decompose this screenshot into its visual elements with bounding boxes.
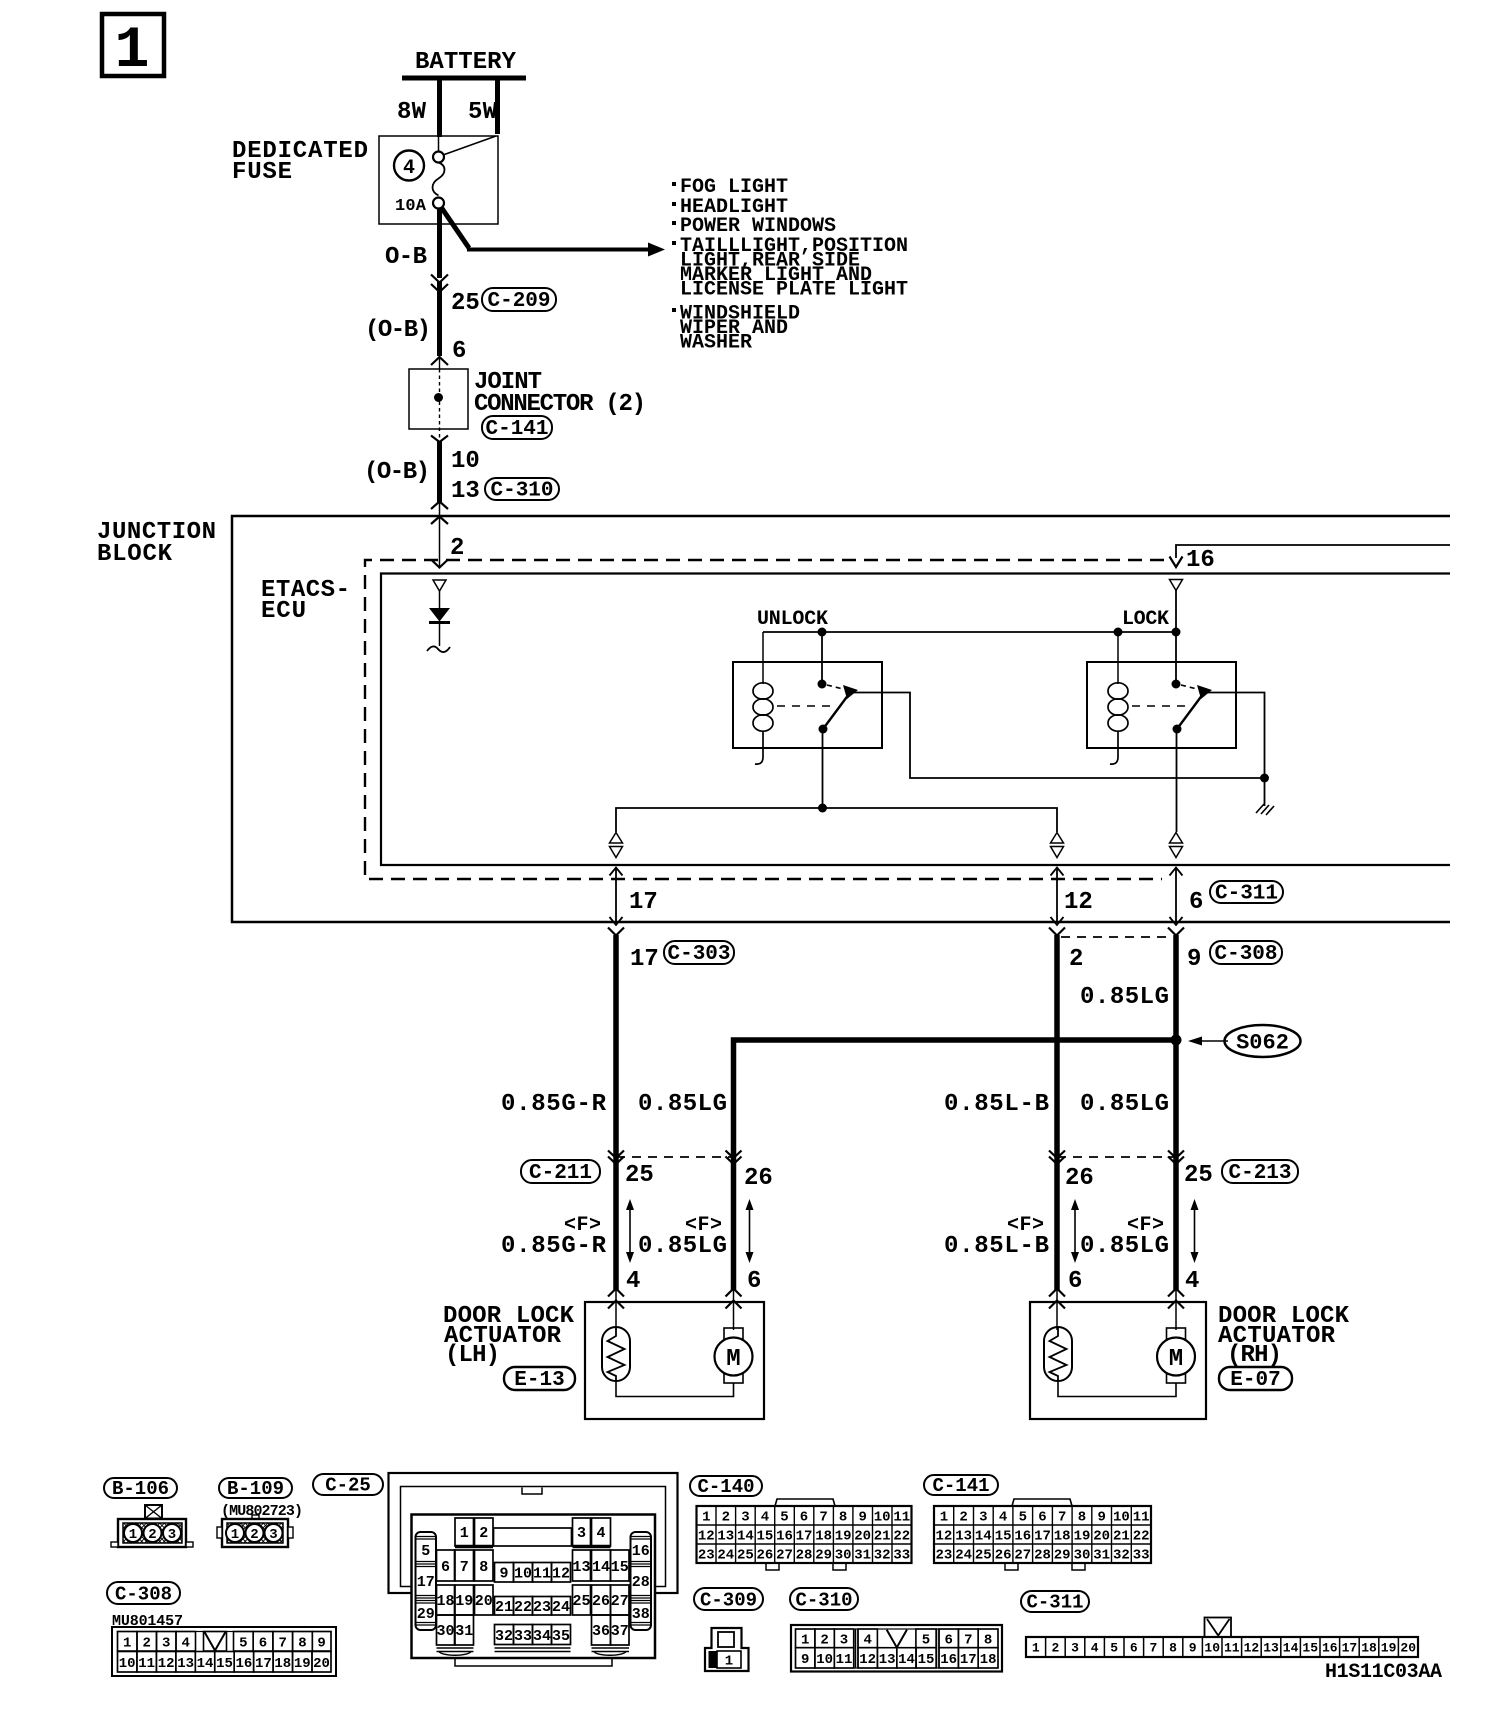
svg-text:22: 22 (893, 1529, 910, 1545)
connector bubble C-140 (690, 1476, 762, 1498)
svg-text:10: 10 (451, 448, 480, 475)
LH actuator internal wire (616, 1381, 734, 1397)
svg-text:18: 18 (436, 1593, 454, 1610)
svg-text:1: 1 (1032, 1641, 1040, 1656)
svg-text:3: 3 (577, 1525, 586, 1542)
svg-text:C-141: C-141 (485, 418, 548, 441)
load list text (672, 176, 908, 355)
C-308 row2 pins 10-20 (118, 1652, 332, 1673)
ECU inner box (381, 574, 1450, 866)
svg-text:30: 30 (1074, 1548, 1091, 1564)
svg-text:14: 14 (592, 1559, 610, 1576)
svg-text:11: 11 (893, 1510, 910, 1526)
svg-text:14: 14 (197, 1656, 214, 1672)
wire 0.85LG pin9 to RH actuator (1173, 935, 1179, 1290)
connector C-211 crossing chevrons (608, 1151, 742, 1165)
svg-text:10: 10 (119, 1656, 136, 1672)
svg-text:19: 19 (1074, 1529, 1091, 1545)
svg-text:4: 4 (999, 1510, 1007, 1526)
svg-text:20: 20 (475, 1593, 493, 1610)
svg-text:38: 38 (632, 1606, 650, 1623)
svg-text:6: 6 (259, 1636, 267, 1652)
C-25 left side column pins 5 17 29 (416, 1532, 437, 1630)
svg-text:9: 9 (858, 1510, 866, 1526)
svg-text:9: 9 (1097, 1510, 1105, 1526)
svg-text:22: 22 (1133, 1529, 1150, 1545)
svg-text:0.85LG: 0.85LG (1080, 984, 1169, 1011)
chevron wire6 exits junction block (1168, 928, 1184, 936)
C-310 key notch (887, 1630, 907, 1648)
svg-text:17: 17 (629, 889, 658, 916)
svg-text:13: 13 (1263, 1641, 1279, 1656)
svg-text:9: 9 (801, 1652, 809, 1668)
svg-text:8: 8 (1078, 1510, 1086, 1526)
LH actuator coil (602, 1327, 630, 1381)
connector bubble C-308 (1210, 941, 1282, 966)
svg-text:(O-B): (O-B) (365, 317, 431, 344)
connector B-109 body (217, 1515, 293, 1547)
svg-text:24: 24 (955, 1548, 972, 1564)
connector C-141 body (934, 1499, 1151, 1570)
svg-text:4: 4 (596, 1525, 605, 1542)
chevrons into RH actuator pin6 (1049, 1289, 1065, 1309)
svg-text:1: 1 (123, 1636, 131, 1652)
updown arrow wire2rh (1071, 1199, 1079, 1263)
svg-text:6: 6 (1068, 1268, 1082, 1295)
RH actuator motor M (1157, 1328, 1195, 1383)
svg-text:15: 15 (918, 1652, 935, 1668)
svg-text:17: 17 (796, 1529, 813, 1545)
svg-text:16: 16 (632, 1543, 650, 1560)
svg-text:0.85LG: 0.85LG (1080, 1233, 1169, 1260)
connector bubble C-309 (694, 1588, 763, 1612)
svg-text:26: 26 (744, 1165, 773, 1192)
svg-text:8: 8 (479, 1559, 488, 1576)
svg-text:12: 12 (859, 1652, 876, 1668)
relay output bus wire (616, 808, 1057, 832)
wire 0.85L-B pin2 to RH actuator (1054, 935, 1060, 1290)
svg-text:28: 28 (1034, 1548, 1051, 1564)
svg-text:26: 26 (1065, 1165, 1094, 1192)
chevron out of joint connector (431, 436, 448, 443)
svg-text:36: 36 (592, 1623, 610, 1640)
svg-text:3: 3 (741, 1510, 749, 1526)
connector C-25 housing (389, 1473, 678, 1593)
svg-text:2: 2 (479, 1525, 488, 1542)
svg-text:13: 13 (879, 1652, 896, 1668)
svg-text:16: 16 (940, 1652, 957, 1668)
svg-text:10: 10 (1204, 1641, 1220, 1656)
svg-text:13: 13 (717, 1529, 734, 1545)
svg-text:4: 4 (1091, 1641, 1099, 1656)
connector C-213 crossing chevrons (1049, 1151, 1184, 1165)
wire lock switch output down (1176, 729, 1178, 832)
svg-text:S062: S062 (1236, 1031, 1289, 1056)
chevron into joint connector (431, 357, 448, 365)
svg-text:25: 25 (975, 1548, 992, 1564)
connector bubble C-311 (1210, 881, 1283, 906)
svg-text:12: 12 (158, 1656, 175, 1672)
wire 16 from right side (1176, 545, 1450, 558)
svg-text:25: 25 (625, 1162, 654, 1189)
chevrons into RH actuator pin4 (1168, 1289, 1184, 1309)
svg-text:2: 2 (250, 1527, 258, 1543)
svg-text:30: 30 (835, 1548, 852, 1564)
connector bubble B-109 (219, 1478, 292, 1500)
svg-text:33: 33 (1133, 1548, 1150, 1564)
svg-text:1: 1 (115, 19, 150, 84)
svg-text:CONNECTOR (2): CONNECTOR (2) (474, 391, 646, 418)
arrow into ETACS on wire 16 (1170, 557, 1183, 568)
svg-text:32: 32 (495, 1628, 513, 1645)
C-25 row D pins 32-35 (495, 1625, 571, 1645)
svg-text:C-310: C-310 (490, 480, 553, 503)
pin 2 input triangle (433, 580, 446, 591)
svg-text:20: 20 (854, 1529, 871, 1545)
svg-text:19: 19 (1381, 1641, 1397, 1656)
svg-text:18: 18 (815, 1529, 832, 1545)
wire unlock NC contact right (853, 693, 1265, 779)
svg-text:7: 7 (460, 1559, 469, 1576)
svg-text:8: 8 (298, 1636, 306, 1652)
svg-text:4: 4 (761, 1510, 769, 1526)
svg-text:E-07: E-07 (1230, 1369, 1280, 1392)
svg-text:33: 33 (893, 1548, 910, 1564)
svg-text:19: 19 (835, 1529, 852, 1545)
connector bubble E-13 (504, 1367, 575, 1392)
svg-text:6: 6 (800, 1510, 808, 1526)
wire unlock switch output down (822, 729, 824, 808)
wire (O-B) C-209 to joint connector (437, 281, 442, 356)
svg-text:5W: 5W (468, 99, 498, 126)
svg-text:7: 7 (278, 1636, 286, 1652)
svg-text:6: 6 (1038, 1510, 1046, 1526)
unlock switch (818, 680, 859, 734)
svg-text:18: 18 (274, 1656, 291, 1672)
svg-text:11: 11 (836, 1652, 853, 1668)
svg-text:1: 1 (725, 1654, 733, 1670)
svg-text:6: 6 (1189, 889, 1203, 916)
svg-text:7: 7 (819, 1510, 827, 1526)
C-310 row2 cells (796, 1648, 999, 1668)
connector bubble C-209 (482, 288, 556, 313)
wire into LH motor (733, 1290, 735, 1330)
svg-text:23: 23 (935, 1548, 952, 1564)
svg-text:20: 20 (313, 1656, 330, 1672)
LH actuator box (585, 1302, 764, 1419)
svg-text:C-308: C-308 (1214, 943, 1277, 966)
wire unlock switch feed (821, 632, 823, 682)
svg-text:24: 24 (552, 1599, 570, 1616)
svg-text:6: 6 (441, 1559, 450, 1576)
svg-text:12: 12 (935, 1529, 952, 1545)
svg-text:0.85L-B: 0.85L-B (944, 1233, 1049, 1260)
svg-text:31: 31 (1093, 1548, 1110, 1564)
svg-text:B-106: B-106 (112, 1478, 169, 1500)
svg-text:C-303: C-303 (667, 943, 730, 966)
svg-text:9: 9 (317, 1636, 325, 1652)
svg-text:C-25: C-25 (325, 1475, 371, 1497)
chevron wire17 exits junction block (608, 928, 624, 936)
RH actuator box (1030, 1302, 1206, 1419)
C-25 row B pins 9-12 (495, 1563, 571, 1583)
wire 0.85G-R pin17 to LH actuator (613, 935, 619, 1290)
svg-text:C-309: C-309 (700, 1590, 757, 1612)
C-25 middle blank slot (494, 1528, 572, 1546)
svg-text:11: 11 (1224, 1641, 1240, 1656)
svg-text:25: 25 (572, 1593, 590, 1610)
svg-text:13: 13 (451, 478, 480, 505)
svg-text:(MU802723): (MU802723) (221, 1503, 303, 1520)
dashed connector C-213 link (1057, 1156, 1176, 1158)
svg-text:2: 2 (450, 535, 464, 562)
svg-text:5: 5 (780, 1510, 788, 1526)
svg-text:19: 19 (294, 1656, 311, 1672)
svg-text:10A: 10A (395, 197, 427, 216)
C-308 key notch (204, 1632, 227, 1652)
B-109 pin 3 (265, 1524, 283, 1542)
svg-text:3: 3 (168, 1527, 176, 1543)
svg-text:(O-B): (O-B) (364, 459, 430, 486)
svg-text:13: 13 (177, 1656, 194, 1672)
svg-text:20: 20 (1400, 1641, 1416, 1656)
svg-text:8: 8 (839, 1510, 847, 1526)
svg-text:C-310: C-310 (795, 1590, 852, 1612)
svg-text:ECU: ECU (261, 598, 306, 625)
svg-text:2: 2 (820, 1633, 828, 1649)
svg-text:H1S11C03AA: H1S11C03AA (1325, 1661, 1442, 1684)
C-311 key notch (1205, 1618, 1232, 1638)
svg-text:15: 15 (611, 1559, 629, 1576)
svg-text:C-213: C-213 (1228, 1162, 1291, 1185)
svg-text:13: 13 (572, 1559, 590, 1576)
svg-text:17: 17 (255, 1656, 272, 1672)
unlock relay coil (753, 683, 773, 764)
pin 17 output triangles (610, 833, 623, 858)
svg-text:12: 12 (1064, 889, 1093, 916)
svg-text:M: M (1169, 1346, 1183, 1373)
svg-text:23: 23 (533, 1599, 551, 1616)
node wire16 junction (1172, 628, 1181, 637)
svg-text:34: 34 (533, 1628, 551, 1645)
svg-text:4: 4 (626, 1268, 640, 1295)
svg-text:25: 25 (737, 1548, 754, 1564)
C-308 row1 pins 1-4 (118, 1632, 196, 1652)
junction block outline (232, 516, 1450, 922)
svg-text:31: 31 (854, 1548, 871, 1564)
splice S062 wire (734, 1040, 1177, 1290)
svg-text:0.85L-B: 0.85L-B (944, 1091, 1049, 1118)
connector pass chevrons C-209 (431, 275, 448, 293)
svg-text:15: 15 (995, 1529, 1012, 1545)
node unlock switch tap (818, 628, 827, 637)
svg-text:12: 12 (552, 1566, 570, 1583)
svg-text:10: 10 (514, 1566, 532, 1583)
svg-text:UNLOCK: UNLOCK (757, 608, 828, 631)
lock relay box (1087, 662, 1236, 748)
chevron below junction block edge (431, 517, 448, 525)
svg-text:27: 27 (1014, 1548, 1031, 1564)
ground (1256, 804, 1274, 815)
svg-text:C-211: C-211 (529, 1162, 592, 1185)
connector bubble C-141 (482, 416, 552, 441)
updown arrow wire9rh (1191, 1199, 1199, 1263)
wire diode to continuation (439, 623, 441, 646)
connector bubble C-213 (1222, 1160, 1298, 1185)
svg-text:5: 5 (922, 1633, 930, 1649)
B-106 pin 1 (124, 1524, 142, 1542)
svg-text:18: 18 (1054, 1529, 1071, 1545)
svg-text:BATTERY: BATTERY (415, 49, 517, 76)
svg-text:14: 14 (975, 1529, 992, 1545)
svg-text:2: 2 (142, 1636, 150, 1652)
svg-text:(LH): (LH) (445, 1342, 500, 1369)
connector B-106 body (111, 1505, 193, 1547)
svg-text:3: 3 (1071, 1641, 1079, 1656)
svg-text:5: 5 (421, 1543, 430, 1560)
svg-text:C-209: C-209 (487, 290, 550, 313)
pin 16 input triangle (1170, 580, 1183, 591)
svg-text:10: 10 (874, 1510, 891, 1526)
svg-text:8: 8 (984, 1633, 992, 1649)
svg-text:1: 1 (460, 1525, 469, 1542)
connector bubble C-141 bottom (924, 1475, 998, 1497)
svg-text:E-13: E-13 (514, 1369, 564, 1392)
svg-text:20: 20 (1093, 1529, 1110, 1545)
svg-text:1: 1 (940, 1510, 948, 1526)
C-25 row D pins 30 31 36 37 (437, 1615, 630, 1645)
svg-text:3: 3 (162, 1636, 170, 1652)
connector C-140 body (697, 1499, 912, 1570)
svg-text:(RH): (RH) (1227, 1342, 1282, 1369)
svg-text:29: 29 (1054, 1548, 1071, 1564)
svg-text:17: 17 (1034, 1529, 1051, 1545)
wire lock NC contact to ground (1207, 693, 1265, 807)
C-310 row1 cells (796, 1629, 999, 1648)
relay supply wire unlock-lock (763, 631, 1176, 633)
svg-text:3: 3 (269, 1527, 277, 1543)
svg-text:17: 17 (960, 1652, 977, 1668)
C-308 row1 pins 5-9 (234, 1632, 332, 1652)
svg-text:7: 7 (1149, 1641, 1157, 1656)
pin 17 C-311 arrow (610, 868, 623, 926)
svg-text:15: 15 (216, 1656, 233, 1672)
svg-text:9: 9 (1189, 1641, 1197, 1656)
wire lock coil feed (1117, 632, 1119, 684)
lock coil-switch dashed link (1132, 705, 1188, 707)
svg-text:18: 18 (980, 1652, 997, 1668)
svg-text:8: 8 (1169, 1641, 1177, 1656)
svg-text:30: 30 (436, 1623, 454, 1640)
svg-text:6: 6 (1130, 1641, 1138, 1656)
continuation squiggle (427, 646, 450, 652)
svg-text:14: 14 (1283, 1641, 1299, 1656)
svg-text:LICENSE PLATE LIGHT: LICENSE PLATE LIGHT (680, 279, 908, 302)
wire into LH coil (615, 1290, 617, 1330)
svg-text:33: 33 (514, 1628, 532, 1645)
B-106 pin 2 (144, 1524, 162, 1542)
svg-text:WASHER: WASHER (680, 332, 752, 355)
svg-text:29: 29 (417, 1606, 435, 1623)
node lock coil tap (1114, 628, 1123, 637)
lock switch (1172, 680, 1213, 734)
C-25 row B pins 6-8 13-15 (437, 1550, 630, 1581)
svg-text:26: 26 (756, 1548, 773, 1564)
svg-text:9: 9 (1187, 946, 1201, 973)
svg-text:27: 27 (611, 1593, 629, 1610)
C-25 right side column pins 16 28 38 (631, 1532, 652, 1630)
svg-text:5: 5 (1110, 1641, 1118, 1656)
svg-text:C-311: C-311 (1026, 1592, 1083, 1614)
svg-text:13: 13 (955, 1529, 972, 1545)
joint connector (2) C-141 (409, 357, 468, 441)
svg-text:17: 17 (630, 946, 659, 973)
svg-text:14: 14 (898, 1652, 915, 1668)
chevrons into LH actuator pin6 (726, 1289, 742, 1309)
svg-text:9: 9 (499, 1566, 508, 1583)
svg-text:C-140: C-140 (697, 1476, 754, 1498)
svg-text:1: 1 (129, 1527, 137, 1543)
svg-text:0.85G-R: 0.85G-R (501, 1091, 607, 1118)
svg-text:19: 19 (455, 1593, 473, 1610)
pin 6 C-311 arrow (1170, 868, 1183, 926)
C-25 row A pins 1-4 (455, 1518, 611, 1547)
dedicated fuse no.4 10A (379, 136, 498, 224)
svg-text:17: 17 (417, 1574, 435, 1591)
wire feed into junction block (439, 501, 441, 568)
svg-text:25: 25 (1184, 1162, 1213, 1189)
svg-text:16: 16 (1322, 1641, 1338, 1656)
svg-text:21: 21 (495, 1599, 513, 1616)
svg-text:4: 4 (403, 157, 415, 180)
svg-text:37: 37 (611, 1623, 629, 1640)
svg-text:BLOCK: BLOCK (97, 541, 173, 568)
svg-text:LOCK: LOCK (1122, 608, 1169, 631)
dashed connector C-308 link (1061, 936, 1170, 938)
connector bubble C-303 (664, 941, 734, 966)
svg-text:7: 7 (964, 1633, 972, 1649)
node splice S062 (1171, 1035, 1182, 1046)
ETACS-ECU dashed outline (365, 560, 1164, 879)
pin 12 output triangles (1051, 833, 1064, 858)
unlock coil-switch dashed link (777, 705, 833, 707)
C-25 row C pins 18-20 25-27 (437, 1585, 630, 1615)
splice S062 callout (1188, 1025, 1301, 1057)
pin 6 output triangles (1170, 833, 1183, 858)
svg-text:O-B: O-B (385, 244, 427, 271)
C-25 bottom skirts (437, 1648, 630, 1655)
chevron into ETACS dashed box (431, 560, 448, 568)
connector bubble C-25 (313, 1474, 383, 1497)
node ground junction (1260, 774, 1269, 783)
svg-text:5: 5 (1019, 1510, 1027, 1526)
connector C-309 body (705, 1628, 749, 1671)
connector bubble C-211 (521, 1160, 600, 1185)
svg-text:28: 28 (796, 1548, 813, 1564)
connector C-308 pinout body (112, 1627, 336, 1676)
wire 5W diagonal to fuse terminal (443, 136, 496, 155)
svg-text:28: 28 (632, 1574, 650, 1591)
svg-text:1: 1 (231, 1527, 239, 1543)
C-141 pin numbers (935, 1510, 1149, 1564)
svg-text:C-141: C-141 (932, 1475, 989, 1497)
svg-text:24: 24 (717, 1548, 734, 1564)
svg-text:25: 25 (451, 290, 480, 317)
chevrons into LH actuator pin4 (608, 1289, 624, 1309)
svg-text:12: 12 (698, 1529, 715, 1545)
svg-text:0.85LG: 0.85LG (638, 1233, 727, 1260)
svg-text:11: 11 (533, 1566, 551, 1583)
